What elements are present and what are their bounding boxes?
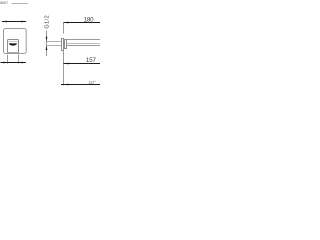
escutcheon plate (front view) — [4, 29, 27, 54]
extension line above spout face — [63, 23, 65, 34]
plate width dimension — [2, 21, 26, 23]
spout width extension lines — [7, 55, 9, 64]
svg-text:180: 180 — [84, 16, 95, 23]
G1/2 upper arrow — [46, 37, 48, 41]
svg-text:10°: 10° — [89, 80, 96, 86]
157 dimension line — [64, 63, 101, 65]
spout body (front view) — [8, 40, 19, 54]
extension line from spout face — [63, 51, 65, 86]
180 dimension line — [64, 22, 101, 24]
lower dimension line — [61, 84, 100, 86]
svg-text:06517: 06517 — [0, 1, 8, 5]
header rule — [12, 3, 29, 5]
spout base collar (side view) — [65, 40, 67, 49]
svg-text:G1/2: G1/2 — [45, 15, 51, 29]
spout width dimension — [0, 62, 25, 64]
spout (side view) — [67, 40, 101, 46]
supply stem (side view) — [47, 41, 62, 43]
spout bottom edge — [8, 52, 19, 54]
wall line — [46, 31, 48, 57]
wall flange (side view) — [62, 39, 64, 51]
aerator slot — [9, 43, 17, 45]
G1/2 lower arrow — [46, 46, 48, 50]
svg-text:157: 157 — [86, 57, 97, 64]
spout rim line — [8, 41, 18, 43]
